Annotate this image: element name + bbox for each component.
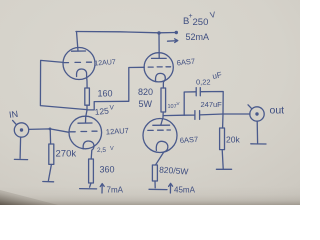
triode V2 grid dashes — [148, 66, 170, 68]
svg-text:6AS7: 6AS7 — [180, 135, 199, 145]
svg-text:45mA: 45mA — [174, 186, 196, 195]
wire: 20k to ground — [222, 150, 223, 169]
wire: output node B to coupling caps — [163, 114, 195, 117]
triode V3 grid dashes — [70, 130, 97, 133]
triode V4 6AS7 envelope — [143, 119, 177, 153]
wire: IN jack to ground — [19, 137, 22, 158]
ground (IN jack) — [14, 158, 27, 160]
node input junction — [49, 127, 52, 130]
wire: OUT jack to ground — [256, 121, 258, 143]
triode V4 cathode hook — [156, 141, 168, 165]
triode V2 cathode hook — [156, 73, 166, 88]
node junction V2 anode on B+ rail — [157, 31, 160, 34]
resistor 820/5W (V4 cathode) — [152, 165, 157, 181]
wire: V1 anode lead — [77, 32, 79, 52]
wire: node A below 160 — [86, 105, 88, 123]
wire: IN jack to V3 grid — [29, 129, 69, 132]
triode V2 anode plate bar — [152, 57, 167, 59]
triode V4 anode plate bar — [153, 124, 170, 126]
wire: B+ rail from V1 anode to B+ terminal — [76, 32, 176, 33]
svg-text:6AS7: 6AS7 — [176, 57, 195, 68]
svg-text:12AU7: 12AU7 — [106, 126, 130, 137]
svg-text:V: V — [110, 105, 115, 112]
triode V3 cathode hook — [83, 141, 94, 159]
triode V1 grid dashes — [64, 61, 92, 63]
wire: junction to 270k — [49, 129, 51, 144]
wire: V2 anode lead — [158, 34, 160, 59]
wire: 270k to ground — [48, 165, 51, 181]
svg-text:7mA: 7mA — [107, 186, 124, 195]
arrow 52mA current — [168, 39, 178, 43]
ground (OUT jack) — [251, 143, 266, 145]
capacitor 0,22uF plates — [196, 88, 200, 96]
svg-text:V: V — [177, 101, 180, 106]
svg-text:107: 107 — [168, 104, 177, 110]
wire: upper cap branch left riser — [184, 92, 196, 115]
wire: cap to out node — [200, 113, 250, 116]
ground (270k) — [43, 181, 54, 183]
triode V3 12AU7 envelope — [69, 116, 102, 149]
capacitor 240uF plates — [195, 111, 200, 120]
wire: V1 grid to node A (left loop) — [40, 60, 86, 109]
wire: upper branch right side down to out node and 20k — [201, 92, 224, 129]
triode V3 anode plate bar — [78, 122, 92, 124]
arrow 45mA current — [169, 183, 173, 193]
resistor 20k — [220, 128, 225, 150]
svg-text:125: 125 — [94, 106, 109, 117]
svg-text:820: 820 — [138, 87, 153, 97]
bottom shadow band — [0, 186, 300, 205]
triode V2 6AS7 envelope — [144, 53, 173, 82]
resistor 160 (V1 cathode) — [85, 88, 90, 105]
ground (V3 cathode) — [80, 188, 97, 190]
wire: 360 to ground — [90, 183, 91, 187]
bottom-left corner shadow — [0, 190, 58, 205]
svg-text:out: out — [270, 105, 285, 117]
svg-text:2,5: 2,5 — [97, 147, 106, 154]
svg-text:270k: 270k — [56, 149, 77, 160]
svg-text:20k: 20k — [226, 135, 240, 145]
connector IN jack — [14, 123, 28, 137]
node B+ terminal dot — [175, 31, 178, 34]
connector OUT jack — [250, 107, 264, 121]
svg-text:52mA: 52mA — [186, 32, 210, 42]
svg-text:V: V — [110, 146, 114, 152]
svg-text:247uF: 247uF — [201, 100, 223, 109]
svg-text:IN: IN — [8, 109, 18, 120]
triode V4 grid dashes — [148, 129, 171, 131]
svg-text:250: 250 — [193, 17, 209, 28]
svg-text:160: 160 — [98, 89, 113, 99]
triode V1 anode plate bar — [72, 50, 86, 52]
resistor 360 (V3 cathode) — [89, 159, 94, 183]
ground (20k) — [216, 168, 231, 170]
triode V1 cathode hook — [77, 69, 88, 88]
resistor 820 5W (V2 cathode) — [161, 88, 166, 112]
svg-text:0,22: 0,22 — [196, 78, 211, 87]
svg-text:820/5W: 820/5W — [159, 165, 189, 177]
svg-text:5W: 5W — [139, 99, 153, 109]
ground (V4 cathode resistor) — [149, 188, 167, 190]
svg-text:uF: uF — [212, 70, 223, 81]
svg-text:12AU7: 12AU7 — [94, 59, 116, 67]
wire: V4 cathode resistor to ground — [154, 181, 156, 188]
triode V1 12AU7 envelope — [63, 48, 95, 80]
wire: node A step up to V2 grid — [87, 67, 144, 110]
resistor 270k (grid leak) — [49, 144, 54, 164]
wire: node B below 820 — [161, 112, 163, 125]
svg-text:360: 360 — [100, 165, 115, 175]
arrow 7mA current — [100, 184, 104, 193]
